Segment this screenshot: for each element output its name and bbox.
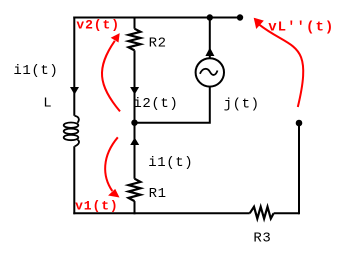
- wire middle vertical mid: [134, 50, 136, 178]
- svg-text:R1: R1: [149, 186, 167, 202]
- red arrow vL curve: [260, 25, 304, 107]
- arrow i2 middle wire down: [130, 87, 139, 95]
- red arrow vL head: [254, 18, 264, 29]
- svg-text:v1(t): v1(t): [75, 198, 119, 213]
- wire bottom horizontal left: [73, 212, 249, 214]
- wire bottom horizontal right: [274, 212, 299, 214]
- red arrow v2 head: [111, 33, 120, 42]
- svg-text:j(t): j(t): [224, 96, 260, 112]
- current source U1 circle: [196, 58, 224, 86]
- inductor L loop 3: [64, 135, 79, 140]
- arrow i1 left wire down: [70, 87, 79, 95]
- svg-text:L: L: [43, 96, 52, 112]
- svg-text:i1(t): i1(t): [148, 155, 193, 171]
- resistor R1: [129, 179, 141, 201]
- node junction dot middle: [131, 120, 137, 126]
- arrow i1 middle wire up: [130, 138, 139, 146]
- inductor L coil top hook: [75, 116, 79, 123]
- wire middle vertical upper: [134, 17, 136, 29]
- red arrow v1 curve: [105, 137, 118, 191]
- current source sine tilde: [200, 69, 218, 75]
- svg-text:i1(t): i1(t): [13, 63, 58, 79]
- wire middle vertical lower: [134, 201, 136, 214]
- red arrow v2 curve: [102, 41, 120, 112]
- inductor L loop 2: [64, 129, 79, 134]
- wire left vertical upper: [73, 17, 75, 116]
- svg-text:R2: R2: [149, 36, 167, 52]
- svg-text:i2(t): i2(t): [133, 96, 178, 112]
- svg-text:vL''(t): vL''(t): [268, 20, 334, 36]
- svg-text:v2(t): v2(t): [76, 17, 120, 32]
- current source arrow up: [205, 48, 214, 57]
- node terminal dot top right: [237, 14, 243, 20]
- wire left vertical lower: [73, 146, 75, 214]
- node terminal dot right: [296, 120, 303, 127]
- resistor R2: [129, 29, 141, 51]
- node junction dot top (source to top wire): [207, 14, 213, 20]
- inductor L loop 1: [64, 123, 79, 128]
- red arrow v1 head: [108, 189, 119, 198]
- inductor L coil bottom hook: [75, 140, 79, 147]
- wire source bottom to junction: [135, 87, 210, 123]
- wire source top: [209, 18, 211, 59]
- wire right vertical: [298, 123, 300, 214]
- svg-text:R3: R3: [253, 230, 271, 246]
- wire top horizontal: [73, 17, 241, 19]
- resistor R3: [250, 207, 274, 219]
